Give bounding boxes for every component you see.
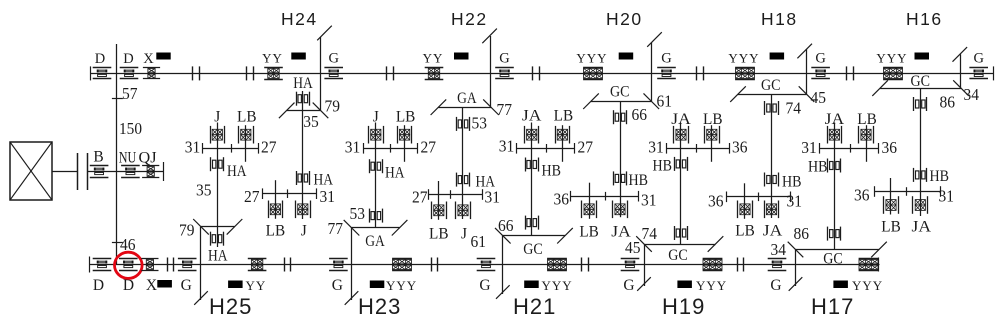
gear J H23 — [369, 126, 384, 144]
wire LB stub H18 — [744, 183, 746, 219]
label LB H16 — [881, 219, 901, 236]
label NU — [119, 150, 137, 167]
wire H17 planet shaft — [834, 123, 836, 250]
gear LB H20 — [582, 201, 597, 219]
clutch YYY H18 — [735, 68, 755, 80]
label JA H20 — [611, 224, 631, 241]
carrier bracket H25 — [193, 219, 242, 235]
label LB H17 — [857, 111, 877, 128]
label 66 H21 — [498, 216, 514, 235]
svg-text:31: 31 — [939, 187, 955, 206]
indicator block H24 — [291, 53, 306, 60]
label 74 H18 — [786, 99, 802, 118]
svg-text:JA: JA — [825, 111, 845, 128]
node H21 shaft bottom tick — [496, 285, 510, 299]
wire H17 main vertical shaft — [795, 250, 797, 287]
svg-text:G: G — [815, 51, 826, 67]
gear HB mid H18 — [765, 173, 779, 187]
gear LB H16 — [884, 196, 899, 214]
label 35 H25 — [196, 181, 212, 200]
label YY H22 — [423, 51, 444, 66]
label GA H22 — [457, 90, 477, 107]
svg-text:86: 86 — [794, 224, 810, 243]
gear 66 on H21 planet shaft — [526, 216, 539, 230]
highlight red circle — [115, 252, 143, 278]
label 61 H20 — [657, 92, 673, 111]
label YY H24 — [262, 51, 283, 66]
svg-text:JA: JA — [522, 108, 542, 125]
label H24 — [0, 0, 1, 1]
svg-text:HB: HB — [808, 159, 828, 176]
svg-text:QJ: QJ — [139, 150, 157, 167]
clutch YYY H19 — [703, 259, 723, 271]
svg-text:GC: GC — [523, 241, 543, 258]
svg-text:GC: GC — [668, 247, 688, 264]
label HA H24 — [293, 75, 313, 92]
clutch YYY H17 — [859, 259, 879, 271]
node H20 shaft top tick — [647, 32, 662, 47]
label LB H22 — [429, 226, 449, 243]
label JA H21 — [522, 108, 542, 125]
label 31 H16 — [939, 187, 955, 206]
gear HA mid H25 — [211, 157, 224, 171]
node bottom shaft left end cap — [89, 257, 91, 273]
svg-text:HB: HB — [653, 158, 673, 175]
svg-text:74: 74 — [786, 99, 802, 118]
svg-text:HB: HB — [542, 163, 562, 180]
gear LB H22 — [432, 202, 447, 220]
wire H19 cluster axis line — [667, 143, 730, 154]
indicator block H23 — [370, 281, 385, 289]
svg-text:D: D — [95, 51, 105, 67]
node H19 shaft bottom tick — [637, 277, 651, 291]
label HA mid H24 — [314, 172, 334, 189]
svg-text:JA: JA — [763, 223, 783, 240]
wire LB stub H19 — [711, 125, 713, 162]
label 31 H22 — [485, 188, 501, 207]
label X bottom — [146, 277, 157, 294]
label 27 H22 — [412, 188, 428, 207]
svg-text:J: J — [301, 223, 307, 240]
svg-text:JA: JA — [671, 111, 691, 128]
svg-text:LB: LB — [429, 226, 449, 243]
wire H21 cluster axis line — [517, 143, 576, 154]
label LB H19 — [703, 111, 723, 128]
gear D1 bottom — [93, 259, 112, 271]
indicator block X top — [156, 53, 170, 60]
indicator block H17 — [833, 281, 848, 289]
label HB mid H18 — [782, 174, 802, 191]
label 36 H16 — [854, 186, 870, 205]
carrier bracket H17 — [788, 242, 887, 258]
svg-text:LB: LB — [266, 223, 286, 240]
svg-text:G: G — [328, 51, 339, 67]
indicator block H19 — [677, 281, 692, 289]
svg-text:H22: H22 — [451, 9, 488, 29]
svg-text:NU: NU — [119, 150, 137, 167]
carrier bracket H16 — [872, 80, 969, 96]
wire H20 cluster axis line — [571, 191, 639, 202]
svg-text:H16: H16 — [906, 9, 943, 29]
node H22 shaft top tick — [482, 29, 497, 44]
gear 53 on H22 planet shaft — [457, 117, 470, 131]
gear LB H23 — [398, 126, 412, 144]
label G H17 — [770, 277, 781, 294]
svg-text:YYY: YYY — [576, 51, 607, 66]
label 27 H23 — [421, 138, 437, 157]
svg-text:79: 79 — [325, 97, 341, 116]
label 36 H17 — [882, 138, 898, 157]
label G H18 — [815, 51, 826, 67]
svg-text:27: 27 — [261, 138, 277, 157]
label 45 H19 — [625, 238, 641, 257]
wire vertical layshaft — [116, 44, 118, 265]
node intermediate shaft end — [163, 162, 165, 181]
svg-text:H17: H17 — [811, 294, 854, 319]
label 45 H18 — [811, 88, 827, 107]
label HB mid H21 — [542, 163, 562, 180]
label YYY H19 — [696, 278, 727, 293]
indicator block H22 — [454, 53, 469, 60]
label G H24 — [328, 51, 339, 67]
gear HA mid H22 — [457, 173, 470, 187]
label 86 H16 — [940, 93, 956, 112]
label GC H20 — [610, 84, 630, 101]
gear D2 top — [120, 68, 139, 79]
svg-text:J: J — [461, 226, 467, 243]
svg-text:H25: H25 — [209, 294, 252, 319]
label HA mid H23 — [385, 165, 405, 182]
svg-text:35: 35 — [196, 181, 212, 200]
label GC H16 — [911, 73, 931, 90]
svg-text:HB: HB — [930, 168, 950, 185]
label HA mid H22 — [476, 174, 496, 191]
label D1 — [95, 51, 105, 67]
svg-text:66: 66 — [632, 105, 648, 124]
svg-text:61: 61 — [657, 92, 673, 111]
gear LB H25 — [239, 126, 254, 144]
svg-text:LB: LB — [735, 223, 755, 240]
svg-text:77: 77 — [328, 219, 344, 238]
clutch YYY H16 — [883, 68, 903, 80]
wire H19 main vertical shaft — [644, 244, 646, 286]
wire H21 main vertical shaft — [502, 236, 504, 294]
label HA H25 — [208, 248, 228, 265]
svg-text:HA: HA — [208, 248, 228, 265]
gear G H24 top shaft — [324, 68, 343, 79]
label HB mid H20 — [629, 172, 649, 189]
label YYY H23 — [386, 278, 417, 293]
label J H23 — [373, 109, 379, 126]
svg-text:53: 53 — [350, 204, 366, 223]
wire bottom main shaft — [89, 264, 879, 266]
svg-text:J: J — [373, 109, 379, 126]
svg-text:G: G — [973, 51, 984, 67]
wire H24 planet shaft — [302, 91, 304, 219]
gear 86 on H16 planet shaft — [914, 97, 927, 111]
clutch YYY H23 — [392, 259, 412, 271]
wire H23 main vertical shaft — [351, 228, 353, 300]
wire LB stub H25 — [245, 125, 247, 162]
label 66 H20 — [632, 105, 648, 124]
gear QJ — [142, 166, 159, 178]
svg-text:57: 57 — [122, 84, 138, 103]
wire H23 planet shaft — [375, 123, 377, 228]
label 31 H25 — [185, 138, 201, 157]
label 77 H22 — [497, 100, 513, 119]
clutch YYY H20 — [583, 68, 603, 80]
gear LB H21 — [556, 126, 570, 144]
label YYY H16 — [876, 51, 907, 66]
wire H21 planet shaft — [531, 123, 533, 236]
svg-text:G: G — [332, 277, 343, 294]
svg-text:27: 27 — [578, 138, 594, 157]
label 36 H20 — [554, 190, 570, 209]
svg-text:LB: LB — [857, 111, 877, 128]
label D1 bottom — [93, 277, 104, 294]
svg-text:GC: GC — [761, 77, 781, 94]
label JA H16 — [912, 219, 932, 236]
gear JA H19 — [674, 126, 689, 144]
wire H22 cluster axis line — [429, 189, 483, 200]
svg-text:34: 34 — [771, 240, 787, 259]
gear HB mid H19 — [675, 157, 688, 171]
wire LB stub H22 — [438, 181, 440, 220]
gear J H24 — [296, 201, 311, 219]
node H16 shaft top tick — [953, 47, 968, 62]
module H24 label — [281, 9, 318, 29]
svg-text:31: 31 — [641, 191, 657, 210]
gear HB mid H16 — [914, 168, 927, 182]
svg-text:LB: LB — [881, 219, 901, 236]
svg-text:J: J — [214, 109, 220, 126]
node H17 shaft bottom tick — [789, 277, 803, 291]
indicator block X bottom — [157, 280, 172, 288]
node H25 shaft bottom tick — [194, 291, 208, 305]
label 31 H20 — [641, 191, 657, 210]
wire H16 planet shaft — [920, 88, 922, 216]
carrier bracket H20 — [583, 93, 659, 109]
label G H21 — [479, 277, 490, 294]
svg-text:74: 74 — [642, 224, 658, 243]
module H19 label — [662, 294, 705, 319]
svg-text:H21: H21 — [513, 294, 556, 319]
svg-text:LB: LB — [554, 108, 574, 125]
svg-text:YY: YY — [262, 51, 283, 66]
label GC H19 — [668, 247, 688, 264]
clutch X bottom — [141, 259, 158, 271]
module H25 label — [209, 294, 252, 319]
gear HA on H25 planet shaft — [211, 232, 224, 246]
wire H24 main vertical shaft — [320, 37, 322, 110]
clutch YYY H21 — [547, 259, 567, 271]
carrier bracket H21 — [495, 228, 573, 244]
svg-text:H24: H24 — [281, 9, 318, 29]
wire H16 main vertical shaft — [960, 54, 962, 88]
gear LB H17 — [859, 126, 874, 144]
gear 74 on H18 planet shaft — [765, 101, 779, 115]
svg-text:G: G — [623, 277, 634, 294]
svg-text:X: X — [143, 51, 154, 67]
label 34 H17 — [771, 240, 787, 259]
svg-text:61: 61 — [471, 232, 487, 251]
wire H24 cluster axis line — [262, 188, 317, 199]
coupling top shaft 4 — [533, 66, 540, 80]
indicator block H20 — [619, 53, 634, 60]
svg-text:31: 31 — [185, 138, 201, 157]
svg-text:G: G — [479, 277, 490, 294]
label GC H18 — [761, 77, 781, 94]
svg-text:YYY: YYY — [696, 278, 727, 293]
svg-text:27: 27 — [412, 188, 428, 207]
svg-text:LB: LB — [703, 111, 723, 128]
label 31 H21 — [499, 137, 515, 156]
label HA mid H25 — [227, 163, 247, 180]
gear LB H18 — [738, 201, 753, 219]
svg-text:YYY: YYY — [386, 278, 417, 293]
gear NU — [121, 166, 140, 178]
coupling motor flange — [78, 153, 88, 190]
svg-text:45: 45 — [811, 88, 827, 107]
gear JA H20 — [613, 201, 628, 219]
label 53 H22 — [472, 114, 488, 133]
wire LB stub H16 — [890, 178, 892, 215]
label 36 H18 — [708, 192, 724, 211]
gear JA H16 — [913, 196, 928, 214]
svg-text:HB: HB — [782, 174, 802, 191]
svg-text:YYY: YYY — [852, 278, 883, 293]
gear JA H18 — [765, 201, 779, 219]
label HB mid H17 — [808, 159, 828, 176]
coupling bottom shaft 5 — [738, 258, 744, 272]
gear G H17 bottom shaft — [768, 259, 787, 271]
label 31 H24 — [320, 187, 336, 206]
svg-text:27: 27 — [244, 187, 260, 206]
module H22 label — [451, 9, 488, 29]
svg-text:GA: GA — [457, 90, 477, 107]
label GA H23 — [365, 233, 385, 250]
wire H16 cluster axis line — [874, 186, 941, 197]
node top shaft left end cap — [90, 66, 92, 80]
label 61 H21 — [471, 232, 487, 251]
wire H18 cluster axis line — [727, 192, 791, 203]
label LB H23 — [396, 109, 416, 126]
gear D2 bottom (circled) — [119, 259, 138, 271]
svg-text:YYY: YYY — [728, 51, 759, 66]
carrier bracket H24 — [279, 103, 328, 119]
gear LB H24 — [269, 201, 283, 219]
label 79 H24 — [325, 97, 341, 116]
wire motor output shaft — [52, 171, 78, 173]
node layshaft tick upper — [112, 98, 123, 100]
svg-text:JA: JA — [912, 219, 932, 236]
svg-text:31: 31 — [499, 137, 515, 156]
coupling bottom shaft 3 — [432, 258, 438, 272]
gear HB mid H20 — [614, 171, 627, 185]
label HB mid H19 — [653, 158, 673, 175]
svg-text:H18: H18 — [761, 9, 798, 29]
label QJ — [139, 150, 157, 167]
svg-text:34: 34 — [964, 85, 980, 104]
svg-text:36: 36 — [708, 192, 724, 211]
label 77 H23 — [328, 219, 344, 238]
wire LB stub H24 — [275, 180, 277, 219]
label G H16 — [973, 51, 984, 67]
label 79 H25 — [179, 221, 195, 240]
gear HB mid H21 — [526, 158, 539, 172]
svg-text:YY: YY — [246, 278, 267, 293]
label 53 H23 — [350, 204, 366, 223]
indicator block H16 — [915, 53, 930, 60]
svg-text:H20: H20 — [606, 9, 643, 29]
node H23 shaft bottom tick — [345, 291, 359, 305]
label 31 H17 — [801, 138, 817, 157]
svg-text:D: D — [123, 51, 133, 67]
label YYY H17 — [852, 278, 883, 293]
svg-text:31: 31 — [485, 188, 501, 207]
motor M1 (input box with cross) — [10, 142, 52, 200]
svg-text:YY: YY — [423, 51, 444, 66]
wire intermediate shaft B-NU-QJ — [87, 171, 163, 173]
label LB H20 — [579, 224, 599, 241]
module H18 label — [761, 9, 798, 29]
wire H22 main vertical shaft — [490, 36, 492, 107]
svg-text:36: 36 — [854, 186, 870, 205]
label D2 bottom — [123, 277, 134, 294]
module H21 label — [513, 294, 556, 319]
wire H20 main vertical shaft — [651, 43, 653, 102]
svg-text:G: G — [770, 277, 781, 294]
gear G H20 top shaft — [657, 68, 676, 79]
svg-text:36: 36 — [882, 138, 898, 157]
wire H17 cluster axis line — [820, 143, 880, 154]
gear 74 on H19 planet shaft — [675, 226, 688, 240]
label 27 H21 — [578, 138, 594, 157]
label X top — [143, 51, 154, 67]
label 86 H17 — [794, 224, 810, 243]
wire top main shaft — [91, 73, 993, 75]
gear G H16 top shaft — [969, 68, 988, 79]
label 27 H25 — [261, 138, 277, 157]
svg-text:GC: GC — [823, 251, 843, 268]
wire LB stub H21 — [562, 125, 564, 162]
svg-text:36: 36 — [732, 138, 748, 157]
gear HB mid H17 — [828, 159, 841, 173]
label 31 H19 — [648, 138, 664, 157]
coupling top shaft 3 — [387, 66, 394, 80]
coupling top shaft 1 — [193, 66, 200, 80]
gear G H23 bottom shaft — [329, 259, 348, 271]
label 57 — [122, 84, 138, 103]
svg-text:G: G — [499, 51, 510, 67]
gear LB H19 — [705, 126, 720, 144]
label LB H18 — [735, 223, 755, 240]
label LB H21 — [554, 108, 574, 125]
gear 66 on H20 planet shaft — [614, 110, 627, 124]
svg-text:77: 77 — [497, 100, 513, 119]
wire H18 planet shaft — [771, 94, 773, 218]
gear G H25 bottom shaft — [178, 259, 197, 271]
gear 86 on H17 planet shaft — [828, 227, 841, 241]
gear HA mid H23 — [370, 159, 383, 173]
svg-text:31: 31 — [801, 138, 817, 157]
node top shaft right end cap — [993, 66, 995, 80]
coupling top shaft 2 — [247, 66, 254, 80]
svg-text:31: 31 — [345, 138, 361, 157]
gear HA on H24 planet shaft — [297, 92, 310, 106]
gear G H19 bottom shaft — [621, 259, 640, 271]
label J H24 — [301, 223, 307, 240]
